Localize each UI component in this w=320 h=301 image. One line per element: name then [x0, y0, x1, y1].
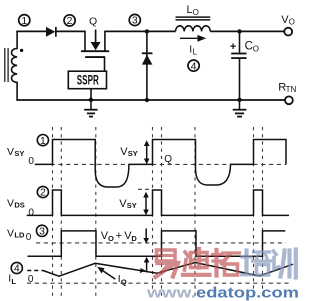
char tuo	[213, 250, 240, 276]
junction capacitor top	[237, 29, 241, 33]
svg-text:DS: DS	[14, 201, 24, 210]
wire top rail MOSFET to node 3 to Lo	[105, 30, 176, 32]
char di	[183, 249, 210, 275]
label VSY row1	[7, 146, 24, 158]
capacitor Co plates	[231, 53, 246, 59]
node 2	[64, 15, 75, 27]
VSY amplitude arrow row1	[144, 140, 150, 164]
wire capacitor branch top	[239, 31, 241, 52]
wire top rail Lo to Vo	[210, 30, 284, 32]
watermark chinese chars	[156, 249, 296, 278]
svg-text:3: 3	[39, 226, 45, 238]
dashed timing grid verticals	[53, 127, 263, 296]
svg-text:Q: Q	[164, 154, 172, 165]
ground under SSPR	[84, 100, 97, 117]
wire SSPR to ground rail	[90, 89, 92, 100]
inductor Lo core bars	[176, 17, 211, 20]
svg-text:Q: Q	[121, 277, 127, 286]
arrow up to VLD low level	[144, 257, 150, 273]
char pei	[242, 251, 271, 276]
wire diode to MOSFET	[57, 30, 86, 32]
ground under capacitor	[233, 100, 247, 117]
svg-text:TN: TN	[286, 85, 297, 94]
wire top rail left	[16, 30, 46, 32]
waveform VLD trace	[28, 231, 286, 256]
svg-text:SY: SY	[127, 201, 137, 210]
svg-text:LD: LD	[14, 230, 25, 239]
waveform VDS trace	[27, 190, 289, 215]
VSY amplitude arrow row2	[143, 192, 149, 215]
svg-text:C: C	[245, 40, 253, 52]
arrowhead on IL down slope	[140, 268, 146, 273]
waveform VSY trace	[35, 140, 286, 188]
svg-text:V: V	[7, 227, 14, 239]
label VSY annotation row2	[119, 198, 137, 210]
label VLD row3	[7, 227, 25, 239]
wire catch diode branch	[146, 31, 148, 100]
junction node 3	[145, 29, 149, 33]
zero line row3 dashed	[36, 242, 286, 244]
junction SSPR ground	[89, 98, 93, 102]
node 1 waveform	[37, 135, 48, 147]
node 3 waveform	[36, 225, 47, 237]
svg-text:www.: www.	[146, 285, 196, 301]
svg-text:L: L	[11, 277, 16, 286]
label IL	[189, 43, 197, 56]
waveform IL dashed lead-in	[27, 270, 43, 272]
label IL row4	[8, 272, 16, 286]
svg-text:2: 2	[40, 187, 46, 199]
gate drive arrow into MOSFET	[91, 30, 101, 51]
wire bottom rail	[16, 99, 285, 101]
svg-text:1: 1	[21, 15, 27, 27]
svg-text:O: O	[193, 8, 199, 17]
svg-text:3: 3	[132, 15, 138, 27]
svg-text:0: 0	[26, 232, 32, 243]
svg-text:L: L	[193, 47, 198, 56]
char yi	[156, 250, 179, 277]
label Vo	[281, 14, 295, 27]
wire capacitor branch bottom	[239, 59, 241, 100]
label VDS row2	[7, 197, 25, 209]
label IQ	[118, 273, 127, 287]
svg-text:O: O	[289, 18, 295, 27]
svg-text:edatop.com: edatop.com	[196, 285, 299, 301]
svg-text:1: 1	[40, 135, 46, 147]
svg-text:V: V	[7, 197, 14, 209]
arrow down to zero line row3	[143, 228, 149, 243]
svg-text:SY: SY	[128, 149, 138, 158]
label RTN	[278, 81, 296, 94]
svg-text:O: O	[108, 234, 114, 243]
svg-text:D: D	[131, 234, 137, 243]
svg-text:0: 0	[28, 207, 34, 218]
svg-text:V: V	[7, 146, 14, 158]
zero line row1 dashed	[35, 163, 286, 165]
wire gate to SSPR	[104, 57, 106, 71]
terminal RTN	[285, 96, 293, 104]
waveform IL trace	[43, 263, 293, 277]
svg-text:SY: SY	[14, 149, 24, 158]
diode D2 catch	[142, 52, 153, 64]
label VO + VD annotation	[101, 230, 138, 243]
transformer polarity dot	[20, 49, 23, 52]
svg-text:O: O	[253, 44, 259, 53]
svg-text:+: +	[230, 41, 236, 53]
SSPR block U1	[68, 71, 106, 89]
node 3	[129, 14, 140, 26]
svg-text:+: +	[116, 230, 122, 242]
dashed tick VDS top level	[138, 188, 153, 190]
label VSY annotation row1	[120, 146, 137, 158]
svg-text:4: 4	[14, 263, 20, 275]
char xun	[274, 250, 296, 278]
node 4	[188, 60, 199, 72]
svg-text:Q: Q	[89, 16, 97, 28]
svg-text:0: 0	[28, 156, 34, 167]
current arrow IL	[180, 35, 206, 42]
terminal Vo	[284, 28, 292, 36]
watermark url text	[146, 285, 299, 301]
transistor Q1 MOSFET	[81, 31, 109, 57]
node 1	[19, 15, 30, 27]
node 2 waveform	[37, 186, 48, 198]
junction capacitor bottom	[237, 98, 241, 102]
diode D1	[46, 27, 57, 37]
inductor Lo winding	[176, 26, 211, 32]
label Lo	[187, 4, 199, 17]
svg-text:4: 4	[191, 60, 197, 72]
zero line row4 dashed	[27, 282, 292, 284]
transformer T1 core	[5, 48, 8, 82]
node 4 waveform	[11, 262, 22, 274]
transformer T1 secondary winding	[11, 31, 17, 100]
IQ pointer arrow	[97, 267, 115, 279]
label Co	[245, 40, 259, 53]
svg-text:SSPR: SSPR	[77, 73, 99, 88]
junction catch diode bottom	[145, 98, 149, 102]
svg-text:2: 2	[67, 15, 73, 27]
